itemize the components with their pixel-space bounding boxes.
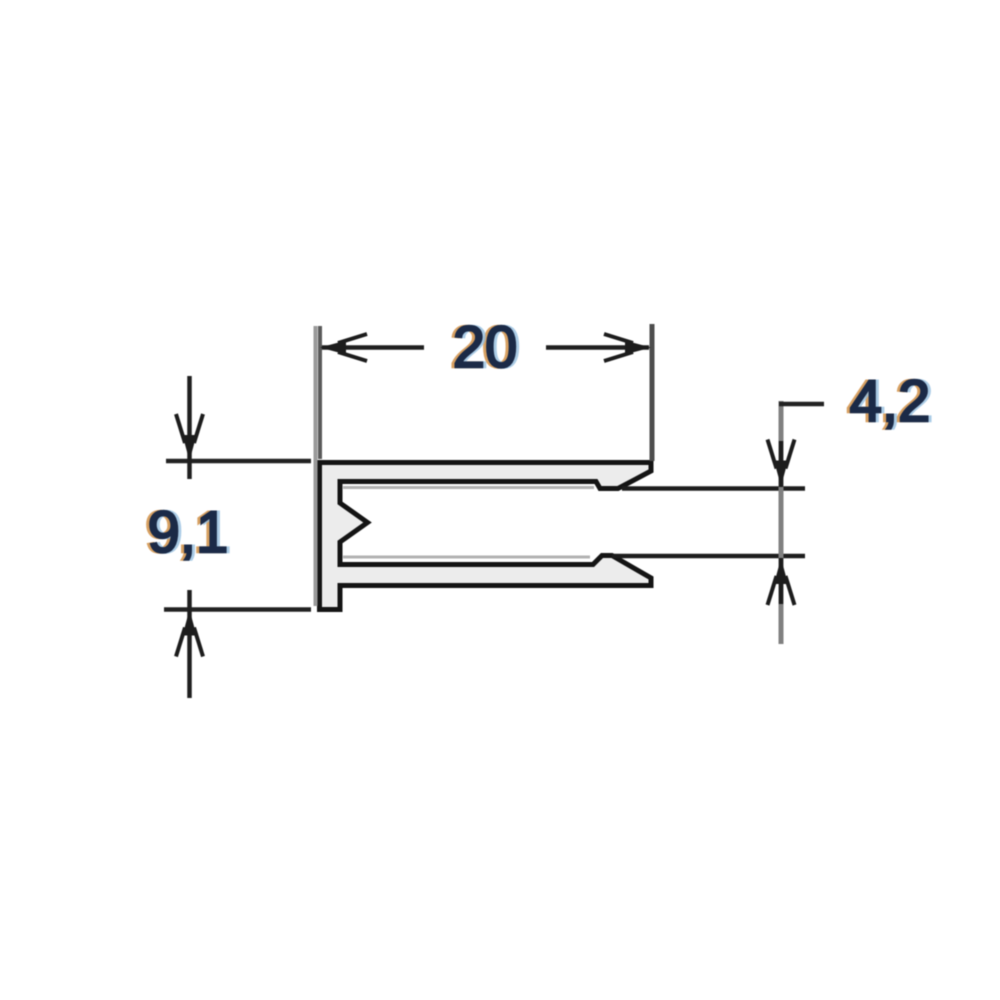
dim 9,1: lower dimension line + up arrow bbox=[187, 590, 192, 698]
dim 4,2: value label bbox=[847, 369, 934, 434]
dim 4,2: top extension line (from upper barb tip) bbox=[622, 486, 805, 491]
svg-text:9,1: 9,1 bbox=[148, 500, 229, 565]
dim 20: left extension line (gray, runs down beside wall) bbox=[314, 326, 318, 606]
dim 4,2: bottom up arrow bbox=[779, 558, 784, 604]
gray reference line upper (inside cavity) bbox=[343, 486, 594, 489]
gray reference line lower (inside cavity) bbox=[343, 556, 590, 559]
dim 20: left dimension line + arrow bbox=[322, 345, 424, 350]
dim 4,2: top down arrow bbox=[779, 441, 784, 487]
svg-text:20: 20 bbox=[453, 315, 518, 380]
dim 9,1: bottom extension line bbox=[164, 607, 311, 612]
svg-text:4,2: 4,2 bbox=[850, 369, 931, 434]
dim 4,2: leader to label bbox=[779, 402, 824, 407]
dim 9,1: value label bbox=[145, 500, 232, 565]
dim 20: value label bbox=[450, 315, 521, 380]
dim 9,1: top extension line bbox=[166, 459, 311, 464]
dim 4,2: vertical dimension line bbox=[779, 401, 784, 644]
dim 4,2: bottom extension line (from lower barb tip) bbox=[612, 554, 805, 559]
dim 9,1: upper dimension line + down arrow bbox=[187, 376, 192, 479]
U-profile body (channel cross-section) bbox=[320, 463, 652, 610]
dim 20: right dimension line + arrow bbox=[546, 345, 649, 350]
dim 20: right extension line bbox=[650, 324, 655, 461]
